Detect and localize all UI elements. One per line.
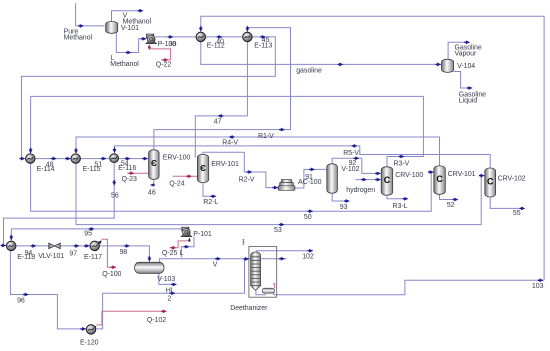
wire stream 39 P-100 to E-112 [155, 36, 195, 38]
vessel V-101 [106, 22, 118, 34]
svg-text:P-101: P-101 [193, 231, 212, 238]
svg-text:Methanol: Methanol [64, 35, 93, 42]
valve VLV-101 [49, 243, 61, 249]
energy stream Q-102 from E-120 [97, 311, 167, 325]
svg-text:Methanol: Methanol [110, 61, 139, 68]
svg-text:48: 48 [46, 162, 54, 169]
heat-exchanger E-114 [26, 154, 35, 163]
pump P-101 [181, 227, 191, 236]
reactor ERV-101 [197, 154, 208, 182]
svg-text:52: 52 [447, 202, 455, 209]
svg-text:gasoline: gasoline [296, 67, 322, 74]
wire stream 96 E-118 to E-120 [10, 250, 85, 329]
svg-text:Q-24: Q-24 [169, 180, 185, 187]
svg-text:E-120: E-120 [80, 340, 99, 346]
svg-text:C: C [436, 174, 443, 184]
svg-text:V-101: V-101 [121, 25, 139, 32]
svg-text:ERV-101: ERV-101 [211, 161, 239, 168]
svg-text:Q-22: Q-22 [156, 61, 172, 68]
svg-text:39: 39 [169, 41, 177, 48]
energy stream Q-24 to ERV-101 [173, 175, 198, 177]
heat-exchanger E-120 [86, 325, 95, 334]
svg-text:103: 103 [532, 283, 544, 290]
svg-text:55: 55 [513, 210, 521, 217]
Deethanizer sub-flowsheet box [249, 247, 277, 298]
svg-text:R2-L: R2-L [203, 199, 218, 206]
pump P-100 [146, 34, 157, 44]
energy stream reboiler duty Deethanizer [273, 284, 275, 289]
svg-text:Liquid: Liquid [459, 98, 478, 105]
svg-text:98: 98 [120, 249, 128, 256]
wire stream 91 AC-100 to V-102 [295, 169, 327, 188]
wire stream 52 from CRV-101 [440, 194, 458, 199]
wire stream 56 E-116 to E-118 [4, 163, 115, 245]
heat-exchanger E-116 [110, 154, 119, 163]
svg-text:V-103: V-103 [157, 276, 175, 283]
energy stream Q-22 to P-100 [149, 45, 170, 60]
svg-text:HI: HI [166, 287, 173, 294]
wire L Methanol liquid V-101 to P-100 [116, 33, 146, 53]
heat-exchanger E-118 [7, 241, 16, 250]
svg-text:Q-23: Q-23 [122, 176, 138, 183]
svg-text:97: 97 [69, 251, 77, 258]
svg-text:V-104: V-104 [457, 63, 475, 70]
reactor ERV-100 [149, 150, 160, 180]
wire R5-V CRV-102 to E-116 top [115, 146, 491, 168]
svg-text:Є: Є [151, 159, 157, 168]
svg-text:47: 47 [214, 119, 222, 126]
wire stream 102 Deethanizer overhead [256, 251, 313, 252]
svg-text:L: L [180, 250, 184, 257]
svg-text:C: C [384, 175, 391, 185]
wire Pure Methanol feed [76, 3, 105, 26]
svg-text:R3-L: R3-L [393, 203, 408, 210]
wire stream 46 from ERV-100 [151, 180, 154, 186]
svg-text:R5-V: R5-V [343, 150, 359, 157]
svg-text:C: C [487, 177, 494, 187]
wire stream 98 E-117 to V-103 [99, 246, 149, 262]
wire hydrogen feed to CRV-100 [356, 179, 381, 181]
svg-text:53: 53 [274, 227, 282, 234]
svg-text:51: 51 [94, 161, 102, 168]
wire R2-V ERV-101 to AC-100 [203, 152, 278, 187]
wire stream V from V-103 [160, 259, 287, 262]
wire stream 48 E-114 to E-115 [35, 158, 71, 160]
svg-text:Q-102: Q-102 [147, 317, 166, 324]
wire R1-V ERV-100 to E-113 top [154, 28, 291, 150]
wire Gasoline Vapour from V-104 [448, 42, 469, 59]
svg-text:54: 54 [121, 160, 129, 167]
wire stream 53 E-115 to CRV-102 [76, 163, 484, 224]
svg-text:56: 56 [111, 192, 119, 199]
wire stream 45 E-113 to E-114 [22, 37, 276, 159]
svg-text:E-117: E-117 [84, 254, 102, 261]
wire stream 103 return bus to E-112 top [201, 16, 544, 280]
wire stream 54 E-116 to ERV-100 [119, 158, 149, 160]
energy stream Q-100 from E-117 [102, 239, 116, 267]
svg-text:Vapour: Vapour [455, 51, 477, 58]
energy stream Q-23 to ERV-100 [127, 172, 148, 174]
wire stream 51 E-115 to E-116 [80, 158, 109, 160]
svg-text:50: 50 [304, 214, 312, 221]
wire R2-L from ERV-101 [203, 183, 216, 197]
heat-exchanger E-117 [90, 241, 99, 250]
Deethanizer template glyph [243, 239, 245, 244]
svg-text:Q-25: Q-25 [162, 250, 178, 257]
heat-exchanger E-115 [71, 154, 80, 163]
svg-text:40: 40 [216, 38, 224, 45]
svg-text:91: 91 [305, 174, 313, 181]
svg-text:Q-100: Q-100 [102, 271, 121, 278]
svg-text:R2-V: R2-V [239, 177, 255, 184]
wire stream 50 E-114 to CRV-101 [31, 163, 434, 211]
svg-text:96: 96 [17, 297, 25, 304]
Deethanizer reboiler [262, 288, 274, 293]
air-cooler AC-100 [278, 179, 295, 190]
svg-text:95: 95 [84, 230, 92, 237]
svg-text:CRV-102: CRV-102 [498, 176, 526, 183]
wire gasoline E-112 to V-104 [201, 42, 441, 65]
svg-text:93: 93 [340, 204, 348, 211]
svg-text:V: V [213, 261, 218, 268]
wire R4-V CRV-101 to E-115 top [76, 137, 440, 166]
svg-text:92: 92 [349, 160, 357, 167]
wire V Methanol vapour from V-101 [112, 11, 143, 22]
wire stream 94 E-118 to VLV-101 [16, 245, 49, 247]
wire stream 103 Deethanizer to recycle [277, 280, 544, 294]
svg-text:2: 2 [167, 296, 171, 303]
reactor CRV-101 [434, 166, 446, 194]
wire stream 40 E-112 to E-113 [206, 36, 243, 38]
wire stream HI from V-103 [159, 273, 176, 284]
svg-text:VLV-101: VLV-101 [38, 253, 64, 260]
wire R3-V CRV-100 to E-114 top [31, 96, 424, 166]
svg-text:hydrogen: hydrogen [346, 187, 375, 194]
vessel V-104 [442, 59, 454, 72]
wire stream 47 E-113 to ERV-101 [195, 42, 247, 158]
energy stream Q-25 from P-101 [170, 238, 189, 247]
svg-text:CRV-100: CRV-100 [395, 172, 423, 179]
svg-text:CRV-101: CRV-101 [448, 171, 476, 178]
wire stream 93 from V-102 [332, 193, 349, 201]
svg-text:ERV-100: ERV-100 [163, 155, 191, 162]
wire stream L V-103 to P-101 [181, 237, 194, 258]
wire stream 97 VLV-101 to E-117 [60, 245, 90, 247]
wire stream 95 P-101 to E-118 top [11, 229, 183, 240]
wire R3-L from CRV-100 [387, 195, 408, 199]
wire Gasoline Liquid from V-104 [453, 72, 472, 89]
svg-text:Є: Є [200, 164, 206, 173]
vessel V-102 [327, 164, 338, 193]
reactor CRV-100 [381, 167, 393, 195]
svg-text:Deethanizer: Deethanizer [230, 305, 268, 312]
separator V-103 [135, 262, 164, 273]
heat-exchanger E-112 [196, 32, 205, 41]
heat-exchanger E-113 [243, 32, 252, 41]
svg-text:R3-V: R3-V [394, 161, 410, 168]
svg-text:102: 102 [302, 254, 314, 261]
svg-text:45: 45 [262, 37, 270, 44]
svg-text:R4-V: R4-V [222, 140, 238, 147]
svg-text:94: 94 [25, 250, 33, 257]
wire stream 92 V-102 to CRV-100 [332, 158, 381, 173]
Deethanizer column [251, 252, 261, 290]
svg-text:R1-V: R1-V [258, 133, 274, 140]
wire stream 2 E-120 to Deethanizer [96, 259, 249, 329]
wire Deethanizer bottoms piping [256, 290, 266, 295]
wire stream 55 from CRV-102 [490, 197, 525, 208]
svg-text:46: 46 [148, 190, 156, 197]
reactor CRV-102 [485, 168, 496, 197]
